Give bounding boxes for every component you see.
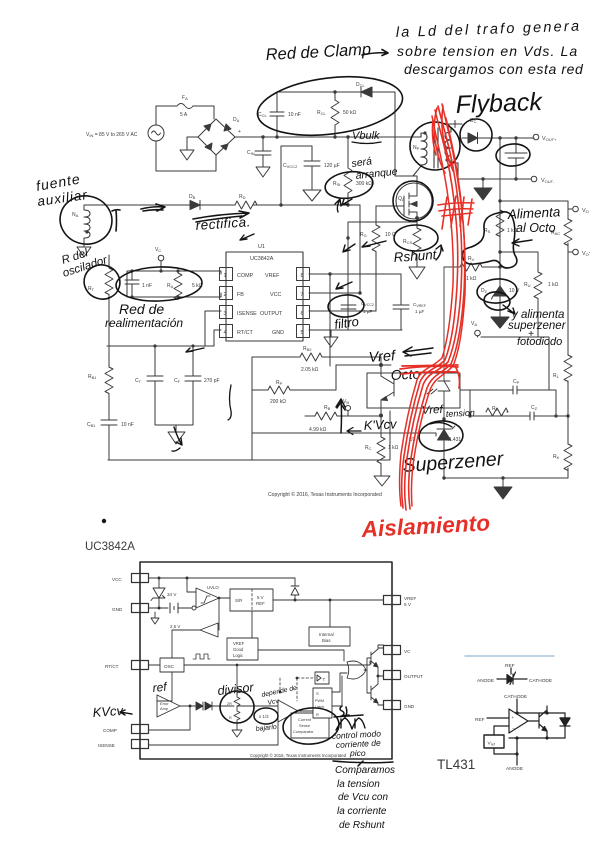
- svg-text:GND: GND: [112, 607, 123, 612]
- svg-text:VOUT-: VOUT-: [541, 178, 555, 184]
- output transistor lower: [371, 672, 384, 705]
- resistor RT: [105, 255, 113, 367]
- resistor RL: [564, 355, 572, 382]
- ground: [77, 247, 91, 257]
- svg-text:Red de Clamp: Red de Clamp: [265, 40, 371, 63]
- wire rtct: [107, 311, 221, 346]
- clamp loop: [254, 69, 406, 142]
- svg-text:5: 5: [301, 330, 304, 336]
- svg-text:VCC: VCC: [270, 292, 281, 298]
- loop transformer: [410, 122, 460, 170]
- arrow at RS blob: [512, 239, 532, 246]
- pin 5 GND: [297, 325, 310, 338]
- svg-text:2.05 kΩ: 2.05 kΩ: [301, 367, 319, 373]
- terminal VO': [568, 249, 572, 252]
- svg-text:REF: REF: [256, 601, 265, 606]
- svg-text:ref: ref: [152, 679, 169, 695]
- svg-text:RC: RC: [365, 445, 372, 451]
- AC source V1: [148, 125, 164, 141]
- capacitor CVCC 1uF: [341, 305, 356, 330]
- S/R 5V REF box: [230, 589, 273, 611]
- svg-text:RCL: RCL: [317, 110, 327, 116]
- svg-text:RCS: RCS: [403, 239, 413, 245]
- svg-text:K'Vcv: K'Vcv: [363, 416, 398, 433]
- loop RT: [80, 260, 125, 303]
- capacitor CP branch: [470, 386, 556, 416]
- svg-text:S: S: [316, 691, 319, 696]
- amp triangle: [509, 709, 528, 733]
- ground: [168, 432, 185, 444]
- loop QA: [393, 181, 433, 221]
- svg-text:VA: VA: [471, 321, 477, 327]
- pin COMP: [132, 725, 149, 734]
- svg-text:VREF: VREF: [404, 596, 416, 601]
- diodes after error amp: [180, 702, 234, 710]
- wire aux line: [141, 204, 360, 206]
- svg-text:270 pF: 270 pF: [204, 378, 220, 384]
- svg-text:x 1/3: x 1/3: [259, 714, 269, 719]
- svg-text:Good: Good: [233, 647, 244, 652]
- 2.5V buffer: [157, 598, 219, 701]
- svg-text:RA: RA: [167, 283, 174, 289]
- svg-text:descargamos con esta red: descargamos con esta red: [404, 61, 584, 77]
- arrow at U1 top: [240, 234, 254, 240]
- svg-text:Logic: Logic: [233, 653, 243, 658]
- svg-text:300 kΩ: 300 kΩ: [356, 181, 372, 187]
- resistor RK: [564, 444, 572, 471]
- bullet: [102, 519, 106, 523]
- svg-text:OSC: OSC: [164, 664, 175, 669]
- PWM latch box: [313, 688, 332, 718]
- svg-text:5 V: 5 V: [404, 602, 412, 607]
- pin GND: [132, 604, 149, 613]
- arrow on aux line: [141, 204, 165, 211]
- svg-text:CIN: CIN: [247, 150, 255, 156]
- TL431 U3: [442, 417, 445, 420]
- arrow near vref pin: [362, 241, 386, 247]
- diode to vref rail: [291, 578, 299, 600]
- svg-text:RB: RB: [324, 405, 331, 411]
- arrow at gate: [342, 199, 355, 252]
- pen squiggle near CF: [228, 385, 231, 420]
- loop TL431: [418, 420, 464, 453]
- svg-text:VREF: VREF: [265, 273, 280, 279]
- svg-text:U1: U1: [258, 244, 265, 250]
- svg-text:RSt: RSt: [333, 181, 341, 187]
- clamp diode DCL: [361, 87, 372, 97]
- pin 3 ISENSE: [220, 306, 233, 319]
- svg-text:Red de: Red de: [119, 301, 164, 317]
- ground arrow: [494, 478, 512, 499]
- hw 1/3 circle: [254, 708, 278, 724]
- hw circle current sense: [282, 706, 341, 747]
- svg-text:50 kΩ: 50 kΩ: [343, 110, 356, 116]
- pin 8 VREF: [297, 268, 310, 281]
- wire output pin6: [309, 310, 376, 312]
- resistor RG: [372, 206, 380, 311]
- svg-text:Bias: Bias: [322, 638, 331, 643]
- svg-text:5 A: 5 A: [180, 112, 188, 118]
- svg-text:Superzener: Superzener: [402, 448, 506, 477]
- svg-text:la tension: la tension: [337, 779, 380, 790]
- capacitor CB1: [101, 420, 117, 460]
- svg-text:rectifica.: rectifica.: [195, 214, 251, 233]
- VREF good logic box: [227, 638, 258, 660]
- resistor RB2: [252, 353, 381, 460]
- wire vref rail: [336, 364, 391, 366]
- svg-text:RT/CT: RT/CT: [105, 664, 119, 669]
- svg-text:Alimenta: Alimenta: [506, 204, 561, 222]
- pin RT/CT: [132, 661, 149, 670]
- wire gnd mid: [252, 432, 381, 434]
- svg-text:la corriente: la corriente: [337, 806, 387, 817]
- svg-text:Amp: Amp: [160, 706, 168, 711]
- red isolation stroke 2: [409, 104, 465, 509]
- Vref box: [484, 735, 504, 748]
- svg-text:120 µF: 120 µF: [324, 163, 340, 169]
- svg-text:RK: RK: [553, 454, 560, 460]
- bottom rail right: [444, 477, 568, 479]
- svg-text:UC3842A: UC3842A: [85, 541, 135, 553]
- resistor RB: [305, 412, 381, 420]
- svg-text:Vref: Vref: [368, 348, 397, 366]
- winding NA auxiliary: [84, 205, 141, 247]
- svg-text:GND: GND: [272, 330, 284, 336]
- pin ISENSE: [132, 740, 149, 749]
- svg-text:DZ: DZ: [481, 288, 488, 294]
- terminal VC: [158, 255, 164, 261]
- loop DC: [460, 119, 492, 151]
- loop NA: [56, 191, 117, 249]
- wire TL431 ref: [381, 433, 436, 436]
- blob RS RV: [463, 212, 517, 268]
- internal bias link: [329, 600, 331, 627]
- svg-text:Comparamos: Comparamos: [335, 765, 395, 776]
- pin VCC: [132, 574, 149, 583]
- bold up arrow: [336, 399, 345, 433]
- svg-text:2.5 V: 2.5 V: [170, 624, 180, 629]
- svg-text:RV: RV: [468, 256, 475, 262]
- capacitor CVREF: [393, 274, 409, 330]
- red isolation stroke 5: [400, 116, 454, 506]
- current sense comparator box: [291, 713, 329, 738]
- arrow near vcc pin: [336, 282, 352, 289]
- resistor RU: [500, 252, 542, 337]
- svg-text:R: R: [229, 716, 232, 720]
- svg-text:CF: CF: [174, 378, 181, 384]
- svg-text:1 kΩ: 1 kΩ: [466, 276, 477, 282]
- wire vcc pin7: [309, 205, 360, 293]
- wire sense chain: [500, 138, 568, 252]
- svg-text:Aislamiento: Aislamiento: [360, 510, 491, 542]
- battery: [170, 603, 178, 613]
- svg-text:depende de: depende de: [261, 685, 298, 699]
- opto U2 box: [367, 373, 460, 408]
- svg-text:5 V: 5 V: [257, 595, 264, 600]
- clamp capacitor CCL: [270, 92, 284, 137]
- pin 2 FB: [220, 287, 233, 300]
- ground arrow output: [474, 179, 492, 200]
- svg-text:OUTPUT: OUTPUT: [404, 674, 423, 679]
- svg-text:VREF: VREF: [233, 641, 245, 646]
- svg-text:T: T: [323, 677, 326, 682]
- svg-text:CP: CP: [513, 379, 520, 385]
- UVLO comparator: [192, 606, 196, 610]
- red horizontal band at octo: [400, 365, 460, 388]
- svg-text:filtro: filtro: [333, 314, 359, 332]
- svg-text:FA: FA: [182, 95, 188, 101]
- divider 2R R: [232, 693, 242, 737]
- svg-text:la Ld del trafo genera: la Ld del trafo genera: [396, 19, 582, 41]
- svg-text:Copyright © 2016, Texas Instru: Copyright © 2016, Texas Instruments Inco…: [250, 753, 347, 758]
- pin 4 RT/CT: [220, 325, 233, 338]
- svg-text:Vbulk: Vbulk: [352, 130, 380, 142]
- svg-text:CATHODE: CATHODE: [504, 694, 527, 700]
- resistor RV: [444, 263, 500, 271]
- svg-text:de Vcu con: de Vcu con: [338, 792, 388, 803]
- Internal Bias box: [309, 627, 350, 646]
- arrow left near RB: [347, 428, 361, 435]
- bridge rectifier DA: [198, 119, 235, 155]
- BJT: [528, 706, 547, 738]
- svg-text:COMP: COMP: [103, 728, 117, 733]
- wire clamp to drain: [395, 92, 413, 176]
- svg-text:ANODE: ANODE: [506, 766, 523, 772]
- loop RSt: [323, 169, 374, 201]
- svg-text:CVREF: CVREF: [413, 302, 427, 308]
- wire VCC row: [149, 577, 296, 579]
- svg-text:2: 2: [224, 292, 227, 298]
- right diode: [560, 713, 570, 738]
- loop comp network: [115, 266, 202, 303]
- vref wires: [494, 726, 517, 754]
- pin VREF: [384, 596, 401, 605]
- loop output cap: [495, 143, 530, 167]
- capacitor CVCC2: [281, 146, 321, 205]
- opto phototransistor: [381, 373, 394, 408]
- output transistor upper: [371, 645, 384, 672]
- wire gnd pin5: [309, 330, 402, 347]
- diode DC: [448, 121, 534, 144]
- svg-text:TL431: TL431: [437, 757, 475, 772]
- wire bottom left rail: [108, 411, 390, 460]
- svg-text:RP: RP: [276, 380, 283, 386]
- svg-text:Copyright © 2016, Texas Instru: Copyright © 2016, Texas Instruments Inco…: [268, 491, 382, 498]
- svg-text:ISENSE: ISENSE: [98, 743, 115, 748]
- svg-text:RD: RD: [239, 194, 246, 200]
- error amp: [157, 695, 180, 717]
- red isolation stroke 4: [411, 118, 465, 506]
- resistor RC: [374, 415, 390, 486]
- wire right column: [567, 252, 569, 478]
- comp network wires: [127, 271, 221, 297]
- svg-text:REF: REF: [475, 717, 485, 723]
- terminal VB: [346, 406, 351, 411]
- pin VC: [384, 646, 401, 655]
- pin 1 COMP: [220, 268, 233, 281]
- T box: [315, 672, 329, 684]
- svg-text:VIN = 85 V to 265 V AC: VIN = 85 V to 265 V AC: [86, 132, 138, 138]
- zener DZ: [491, 252, 509, 328]
- capacitor CT: [147, 346, 176, 425]
- svg-text:al Octo: al Octo: [516, 221, 556, 235]
- svg-text:Rshunt: Rshunt: [393, 247, 438, 265]
- terminal VO: [568, 201, 572, 249]
- output stage wires: [364, 658, 384, 693]
- svg-text:1 kΩ: 1 kΩ: [548, 282, 559, 288]
- svg-text:RZ: RZ: [492, 406, 499, 412]
- wire Vout+: [498, 136, 501, 139]
- svg-text:bajarlo: bajarlo: [255, 724, 277, 733]
- svg-text:superzener: superzener: [508, 320, 567, 332]
- svg-text:10 nF: 10 nF: [288, 112, 301, 118]
- resistor RB1: [105, 367, 113, 420]
- TL431 symbol: [497, 668, 527, 685]
- svg-text:−: −: [512, 726, 515, 731]
- pin GND2: [384, 701, 401, 710]
- svg-text:7: 7: [301, 292, 304, 298]
- mosfet QA: [396, 183, 432, 219]
- svg-text:Vref: Vref: [488, 741, 495, 747]
- svg-text:PWM: PWM: [315, 699, 324, 703]
- red crosshatch near Alimenta: [438, 196, 474, 229]
- current sense comparator triangle: [260, 700, 298, 722]
- zener 34V: [151, 578, 165, 608]
- hw St mark: [340, 706, 349, 717]
- pin 7 VCC: [297, 287, 310, 300]
- svg-text:tension: tension: [446, 407, 476, 419]
- svg-text:CZ: CZ: [531, 405, 538, 411]
- svg-text:2R: 2R: [227, 702, 232, 706]
- dashed links: [297, 678, 315, 701]
- cathode wire: [516, 699, 518, 713]
- svg-text:VO: VO: [582, 208, 589, 214]
- svg-text:QA: QA: [398, 196, 405, 202]
- svg-text:+: +: [512, 715, 515, 720]
- red isolation stroke 1: [405, 106, 462, 510]
- svg-text:UVLO: UVLO: [207, 585, 219, 590]
- ground: [409, 262, 425, 279]
- svg-text:S/R: S/R: [235, 598, 242, 603]
- svg-text:CB1: CB1: [87, 422, 96, 428]
- svg-text:FB: FB: [237, 292, 244, 298]
- wire drain: [413, 175, 417, 177]
- svg-text:pico: pico: [349, 748, 366, 758]
- arrow rectifica: [193, 211, 249, 222]
- svg-text:DA: DA: [233, 117, 240, 123]
- terminal VOUT-: [531, 176, 537, 182]
- capacitor CIN: [255, 137, 271, 177]
- transformer T1: [413, 124, 458, 179]
- svg-text:1: 1: [224, 273, 227, 279]
- resistor RCS shunt: [413, 218, 421, 262]
- node: [261, 135, 264, 138]
- svg-text:TL431: TL431: [447, 437, 461, 443]
- svg-text:COMP: COMP: [237, 273, 254, 279]
- wire arrow to clamp: [362, 50, 388, 56]
- blue divider line: [465, 655, 554, 657]
- resistor RS: [496, 210, 504, 237]
- capacitor CA 1nF: [125, 271, 139, 297]
- IC U1 box: [226, 252, 303, 341]
- pin 6 OUTPUT: [297, 306, 310, 319]
- diode DB: [190, 201, 200, 210]
- terminal VA: [475, 330, 481, 336]
- svg-text:8: 8: [301, 273, 304, 279]
- svg-text:realimentación: realimentación: [105, 316, 183, 330]
- wire isense: [348, 222, 417, 311]
- pin OUTPUT: [384, 671, 401, 680]
- svg-text:VO': VO': [582, 251, 590, 258]
- resistor RST startup: [344, 137, 352, 205]
- wire: [156, 106, 216, 171]
- fuse FA: [177, 104, 193, 109]
- svg-text:NP: NP: [413, 145, 420, 151]
- pen arrow at ground: [172, 427, 182, 451]
- arrow below RSt: [335, 199, 341, 212]
- ISENSE wire: [149, 717, 279, 745]
- T mark: [112, 210, 120, 231]
- arrow near CT: [186, 348, 204, 352]
- svg-text:DB: DB: [189, 194, 196, 200]
- svg-text:+: +: [238, 129, 241, 135]
- loop DZ: [476, 278, 518, 305]
- hw crosshatch: [334, 715, 365, 730]
- svg-text:ISENSE: ISENSE: [237, 311, 257, 317]
- svg-text:10 V: 10 V: [509, 288, 520, 294]
- capacitor CF: [176, 346, 201, 432]
- OSC box: [160, 658, 184, 672]
- top rail: [517, 712, 565, 714]
- svg-text:34 V: 34 V: [167, 592, 177, 597]
- svg-text:RU: RU: [524, 282, 531, 288]
- arrow vref: [403, 347, 433, 356]
- hw underline arrow: [333, 761, 393, 766]
- svg-text:10 nF: 10 nF: [121, 422, 134, 428]
- resistor RP: [252, 365, 336, 394]
- svg-text:CVCC2: CVCC2: [283, 163, 298, 169]
- svg-text:CT: CT: [135, 378, 142, 384]
- loop CVCC filtro: [327, 294, 364, 318]
- loop RCS: [394, 225, 438, 251]
- svg-text:Comparator: Comparator: [293, 729, 314, 734]
- svg-text:de Rshunt: de Rshunt: [339, 820, 386, 831]
- svg-text:RL: RL: [553, 373, 560, 379]
- COMP wire: [149, 706, 191, 730]
- ground stub: [151, 612, 159, 624]
- svg-text:4.99 kΩ: 4.99 kΩ: [309, 427, 327, 433]
- svg-text:GND: GND: [404, 704, 415, 709]
- svg-text:VC: VC: [404, 649, 411, 654]
- resistor RAC: [564, 219, 572, 246]
- svg-text:3: 3: [224, 311, 227, 317]
- opto LED: [427, 267, 450, 419]
- svg-text:1 nF: 1 nF: [142, 283, 152, 289]
- wire GND row: [149, 607, 193, 609]
- svg-text:sobre tension en Vds. La: sobre tension en Vds. La: [397, 43, 578, 59]
- svg-text:VOUT+: VOUT+: [542, 136, 557, 142]
- svg-text:RT/CT: RT/CT: [237, 330, 253, 336]
- svg-text:1 kΩ: 1 kΩ: [388, 445, 399, 451]
- block outer box: [140, 562, 392, 759]
- svg-text:4: 4: [224, 330, 227, 336]
- resistor RD: [235, 201, 257, 209]
- svg-text:RB2: RB2: [303, 346, 312, 352]
- svg-text:Internal: Internal: [319, 632, 334, 637]
- resistor RA: [174, 271, 182, 300]
- ground: [180, 137, 198, 160]
- svg-text:CATHODE: CATHODE: [529, 678, 552, 684]
